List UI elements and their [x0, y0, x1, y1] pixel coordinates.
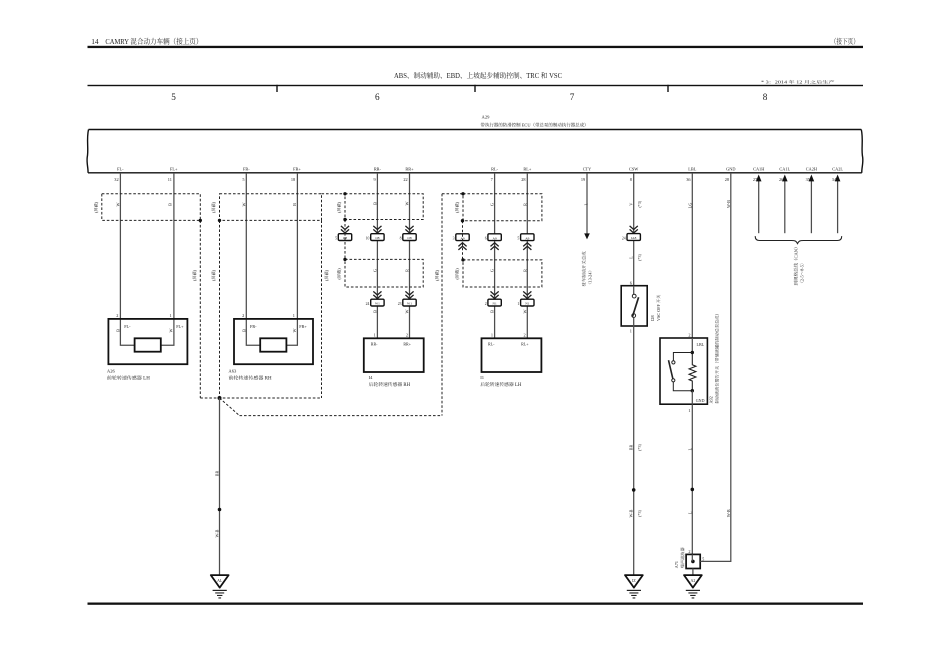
ground AL	[211, 575, 229, 598]
inline connector A9 shield RL	[456, 234, 469, 241]
svg-text:W: W	[169, 328, 174, 332]
svg-text:LG: LG	[688, 203, 693, 209]
shield box RR upper	[345, 194, 423, 220]
wire GND from pin 28	[700, 173, 731, 561]
svg-text:10: 10	[366, 237, 370, 241]
bottom rule	[88, 603, 864, 605]
svg-text:RL-: RL-	[488, 341, 495, 346]
svg-text:W: W	[405, 201, 410, 205]
svg-text:(屏蔽): (屏蔽)	[455, 201, 460, 213]
connector arrows down row2 RR	[373, 291, 413, 298]
svg-text:CA1L: CA1L	[779, 167, 790, 172]
sensor I4 rear speed sensor RH box	[364, 338, 424, 372]
off-page arrow CTY	[584, 233, 590, 239]
svg-text:W: W	[405, 309, 410, 313]
svg-text:1: 1	[630, 329, 632, 334]
svg-text:6: 6	[485, 237, 487, 241]
svg-text:IZ: IZ	[632, 579, 636, 583]
svg-text:7: 7	[570, 92, 575, 102]
internal wiring A92	[691, 338, 693, 353]
svg-text:A9: A9	[525, 236, 529, 240]
svg-text:(*3): (*3)	[637, 444, 642, 451]
svg-text:24: 24	[622, 237, 626, 241]
svg-text:(*3): (*3)	[637, 200, 642, 207]
wire CA2H	[810, 181, 812, 233]
wire RL- from pin 7	[494, 173, 496, 338]
svg-text:后轮转速传感器 RH: 后轮转速传感器 RH	[369, 381, 411, 388]
inline connector IA8 CSW	[627, 234, 640, 241]
inline connector O8 RR-	[371, 234, 384, 241]
inline connector W1 RR+	[403, 299, 416, 306]
inline connector N1 RL-	[488, 299, 501, 306]
svg-text:G: G	[490, 203, 495, 206]
svg-text:(*3): (*3)	[637, 510, 642, 517]
wire CTY from pin 19	[586, 173, 588, 234]
svg-text:3: 3	[453, 237, 455, 241]
svg-text:2: 2	[406, 332, 408, 337]
svg-text:(屏蔽): (屏蔽)	[211, 201, 216, 213]
zone ruler ticks	[276, 85, 277, 92]
ECU pin labels row	[117, 167, 843, 172]
svg-text:1: 1	[491, 332, 493, 337]
svg-text:FR+: FR+	[293, 167, 301, 172]
svg-text:W-B: W-B	[629, 509, 634, 517]
svg-text:(屏蔽): (屏蔽)	[94, 201, 99, 213]
wire CSW upper	[633, 173, 635, 286]
svg-text:FL-: FL-	[124, 324, 131, 329]
svg-text:I28: I28	[650, 315, 655, 321]
svg-text:(屏蔽): (屏蔽)	[455, 268, 460, 280]
svg-text:1: 1	[688, 408, 690, 413]
svg-text:（接下页）: （接下页）	[831, 37, 859, 46]
svg-text:A92: A92	[709, 396, 714, 403]
junction dots shield	[199, 192, 465, 400]
shield box FL pair	[102, 194, 201, 221]
svg-text:CSW: CSW	[629, 167, 639, 172]
inline connector W1 RR-	[371, 299, 384, 306]
svg-text:28: 28	[521, 177, 525, 182]
svg-text:6: 6	[375, 92, 380, 102]
shield drain RL between boxes	[462, 221, 464, 260]
wire FR+ from pin 18	[286, 173, 297, 345]
svg-text:B: B	[373, 310, 378, 313]
svg-text:B: B	[292, 203, 297, 206]
svg-text:1: 1	[293, 313, 295, 318]
svg-text:FL+: FL+	[176, 324, 184, 329]
svg-text:18: 18	[291, 177, 295, 182]
svg-text:19: 19	[581, 177, 585, 182]
svg-text:A63: A63	[228, 368, 237, 373]
svg-text:LBL: LBL	[688, 167, 696, 172]
shield box FR pair	[220, 194, 322, 221]
svg-text:G: G	[490, 269, 495, 272]
svg-text:FR+: FR+	[299, 324, 307, 329]
svg-text:FL-: FL-	[117, 167, 124, 172]
CAN brace	[755, 236, 842, 244]
svg-text:FL+: FL+	[170, 167, 178, 172]
svg-text:前轮转速传感器 LH: 前轮转速传感器 LH	[107, 375, 150, 382]
svg-text:B: B	[241, 329, 246, 332]
switch A92 brake fluid level warning box	[660, 338, 707, 404]
fluid level switch contacts	[672, 361, 675, 364]
svg-text:LBL: LBL	[697, 342, 705, 347]
wire CA1L	[784, 181, 786, 233]
wire CA2L	[837, 181, 839, 233]
svg-text:CA1H: CA1H	[753, 167, 764, 172]
svg-text:RR-: RR-	[371, 341, 378, 346]
shield bus lower	[240, 415, 443, 417]
svg-text:A26: A26	[107, 368, 116, 373]
inline connector A9 RL-	[488, 234, 501, 241]
svg-text:后轮转速传感器 LH: 后轮转速传感器 LH	[480, 381, 522, 388]
svg-text:W: W	[116, 202, 121, 206]
svg-text:N1: N1	[493, 302, 497, 306]
ground A2	[684, 575, 702, 598]
svg-text:8: 8	[630, 177, 632, 182]
svg-text:B: B	[168, 203, 173, 206]
inline connector O8 shield RR	[338, 234, 351, 241]
svg-text:W-B: W-B	[726, 200, 731, 208]
wire FR- from pin 5	[246, 173, 260, 345]
svg-text:L: L	[688, 511, 693, 514]
svg-text:BR: BR	[629, 445, 634, 451]
wire RL+ from pin 28	[526, 173, 528, 338]
sensing element FR	[260, 338, 286, 351]
sensor A63 front speed sensor RH box	[234, 319, 313, 364]
svg-text:B: B	[490, 310, 495, 313]
ground IZ	[625, 575, 643, 598]
svg-text:O8: O8	[407, 236, 411, 240]
svg-text:32: 32	[114, 177, 118, 182]
svg-text:(屏蔽): (屏蔽)	[435, 269, 440, 281]
wire FL- from pin 32	[120, 173, 134, 345]
svg-text:N1: N1	[525, 302, 529, 306]
svg-text:CAMRY 混合动力车辆（接上页）: CAMRY 混合动力车辆（接上页）	[105, 37, 202, 46]
svg-text:(*3): (*3)	[637, 254, 642, 261]
svg-text:A29: A29	[482, 115, 491, 120]
shield bus bottom left	[200, 397, 321, 399]
svg-text:24: 24	[366, 302, 370, 306]
inline connector A9 RL+	[521, 234, 534, 241]
svg-text:驻车制动开关总成: 驻车制动开关总成	[581, 251, 586, 287]
svg-text:R: R	[522, 269, 527, 272]
shield diagonal to lower bus	[220, 398, 240, 416]
shield drain dashed lines	[200, 194, 463, 416]
svg-text:RL-: RL-	[491, 167, 498, 172]
svg-text:BR: BR	[214, 471, 219, 477]
svg-text:11: 11	[168, 177, 172, 182]
svg-text:5: 5	[242, 177, 244, 182]
svg-text:(屏蔽): (屏蔽)	[192, 269, 197, 281]
svg-text:1: 1	[517, 302, 519, 306]
wire FL+ from pin 11	[161, 173, 174, 345]
svg-text:RL+: RL+	[523, 167, 531, 172]
svg-text:2: 2	[485, 302, 487, 306]
sensor A26 front speed sensor LH box	[108, 319, 187, 364]
wire RR+ from pin 22	[409, 173, 411, 338]
svg-text:2: 2	[116, 313, 118, 318]
wire CA1H	[758, 181, 760, 233]
svg-text:带执行器的防滑控制 ECU（带总泵的制动执行器总成）: 带执行器的防滑控制 ECU（带总泵的制动执行器总成）	[481, 122, 589, 127]
svg-text:1: 1	[170, 313, 172, 318]
svg-text:9: 9	[373, 177, 375, 182]
svg-text:VSC OFF 开关: VSC OFF 开关	[656, 294, 661, 321]
svg-text:* 3：2014 年 12 月之后生产: * 3：2014 年 12 月之后生产	[761, 80, 835, 85]
svg-text:(屏蔽): (屏蔽)	[324, 269, 329, 281]
svg-text:W: W	[292, 328, 297, 332]
svg-text:A2: A2	[691, 579, 696, 583]
svg-text:CA2L: CA2L	[832, 167, 843, 172]
ECU pin numbers row	[114, 177, 837, 182]
svg-text:5: 5	[335, 237, 337, 241]
zone ruler line	[88, 85, 864, 86]
switch I28 VSC OFF box	[621, 286, 647, 326]
svg-text:(屏蔽): (屏蔽)	[337, 268, 342, 280]
svg-text:(屏蔽): (屏蔽)	[211, 269, 216, 281]
filter ground wire	[692, 569, 694, 576]
op ECU box A29 skid control	[87, 130, 863, 173]
inline connector N1 RL+	[521, 299, 534, 306]
svg-text:FR-: FR-	[250, 324, 257, 329]
svg-text:8: 8	[763, 92, 768, 102]
resistor A92	[689, 354, 696, 391]
svg-text:〈13-24〉: 〈13-24〉	[588, 268, 593, 286]
wire CSW to ground	[633, 326, 635, 575]
svg-text:制动液液位警告开关（带储液罐的制动总泵总成）: 制动液液位警告开关（带储液罐的制动总泵总成）	[715, 311, 720, 403]
svg-text:R: R	[405, 269, 410, 272]
svg-text:AL: AL	[217, 579, 223, 583]
svg-text:GND: GND	[726, 167, 735, 172]
svg-text:G: G	[373, 269, 378, 272]
svg-text:FR-: FR-	[243, 167, 250, 172]
svg-text:V: V	[629, 203, 634, 206]
svg-text:2: 2	[524, 332, 526, 337]
svg-text:B: B	[373, 202, 378, 205]
svg-text:22: 22	[403, 177, 407, 182]
shield box RL upper	[463, 194, 542, 221]
wire LBL from pin 36	[691, 173, 693, 338]
svg-text:W1: W1	[375, 302, 380, 306]
svg-text:(屏蔽): (屏蔽)	[337, 201, 342, 213]
svg-text:到规格总线（CAN）: 到规格总线（CAN）	[793, 244, 798, 285]
shield link to RL box	[442, 193, 463, 195]
svg-text:L: L	[584, 202, 589, 205]
connector arrows down row2 RL	[491, 291, 532, 298]
shield link FR to RR	[322, 193, 346, 195]
shield ground wire	[219, 398, 221, 575]
splice dot CSW	[632, 488, 636, 492]
shield drain FR left	[219, 220, 221, 398]
svg-text:W: W	[522, 309, 527, 313]
svg-text:CA2H: CA2H	[806, 167, 817, 172]
svg-text:8: 8	[400, 237, 402, 241]
svg-text:O8: O8	[375, 236, 379, 240]
svg-text:5: 5	[171, 92, 176, 102]
svg-text:B: B	[116, 329, 121, 332]
connector arrows down row1 RR	[341, 226, 414, 233]
splice dot	[218, 508, 222, 512]
shield drain RL vertical	[441, 194, 443, 416]
sensor I1 rear speed sensor LH box	[482, 338, 542, 372]
svg-text:RR-: RR-	[374, 167, 382, 172]
wire RR- from pin 9	[376, 173, 378, 338]
svg-text:W1: W1	[407, 302, 412, 306]
shield drain FR right / RR link	[321, 220, 323, 398]
inline connector O8 RR+	[403, 234, 416, 241]
svg-text:R: R	[522, 203, 527, 206]
svg-text:5: 5	[517, 237, 519, 241]
switch contacts	[633, 286, 635, 295]
top rule	[88, 46, 864, 48]
shield drain FL right	[199, 220, 201, 398]
shield drain RR between boxes	[344, 220, 346, 260]
svg-text:1: 1	[374, 332, 376, 337]
splice dot LBL	[691, 488, 695, 492]
svg-text:L: L	[688, 447, 693, 450]
svg-text:W-B: W-B	[214, 529, 219, 537]
svg-text:噪声滤波器: 噪声滤波器	[680, 547, 685, 569]
svg-text:A71: A71	[674, 561, 679, 568]
svg-text:W: W	[241, 202, 246, 206]
svg-text:〈2-5～8-5〉: 〈2-5～8-5〉	[799, 261, 804, 286]
svg-text:W-B: W-B	[726, 509, 731, 517]
svg-text:GND: GND	[696, 398, 705, 403]
sensing element FL	[135, 338, 161, 351]
svg-text:2: 2	[688, 549, 690, 554]
svg-text:14: 14	[91, 37, 99, 46]
svg-text:RL+: RL+	[521, 341, 529, 346]
svg-text:CTY: CTY	[583, 167, 592, 172]
svg-text:2: 2	[242, 313, 244, 318]
svg-text:前轮转速传感器 RH: 前轮转速传感器 RH	[228, 375, 272, 382]
svg-text:ABS、制动辅助、EBD、上坡起步辅助控制、TRC 和 VS: ABS、制动辅助、EBD、上坡起步辅助控制、TRC 和 VSC	[394, 71, 562, 80]
svg-text:RR+: RR+	[403, 341, 411, 346]
svg-text:L: L	[629, 256, 634, 259]
svg-text:28: 28	[725, 177, 729, 182]
shield box RR lower	[345, 259, 423, 287]
wire LBL to filter	[691, 404, 693, 554]
svg-text:RR+: RR+	[405, 167, 414, 172]
svg-text:IA8: IA8	[631, 236, 637, 240]
connector arrows up row1 RL	[458, 243, 531, 250]
svg-text:2: 2	[688, 333, 690, 338]
svg-text:A9: A9	[493, 236, 497, 240]
connector arrows down CSW	[630, 226, 638, 233]
shield box RL lower	[463, 260, 542, 287]
noise filter A71 box	[686, 554, 700, 568]
svg-text:23: 23	[398, 302, 402, 306]
